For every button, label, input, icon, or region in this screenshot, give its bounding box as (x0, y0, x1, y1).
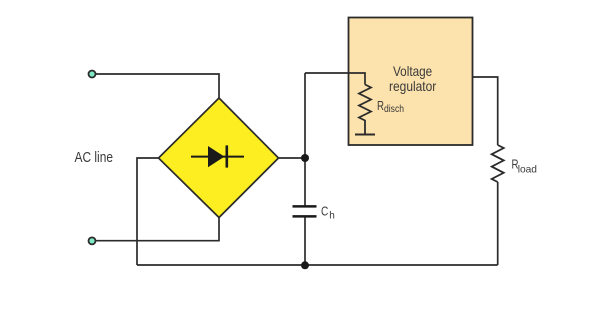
svg-text:h: h (329, 210, 335, 221)
resistor R_load (492, 145, 504, 182)
svg-text:Voltage: Voltage (393, 63, 432, 79)
terminal bottom AC input (89, 237, 96, 244)
junction dot node A (301, 154, 309, 162)
label R_disch (377, 98, 404, 115)
wire bridge right tip to node A (279, 157, 306, 159)
svg-text:C: C (321, 204, 328, 218)
wire top rail to R_disch (305, 73, 365, 85)
capacitor C_h plates (293, 206, 317, 216)
wire R_load to bottom rail (497, 182, 499, 265)
bridge rectifier D1 diamond (159, 98, 279, 218)
label C_h (321, 204, 335, 221)
wire top terminal to bridge top (96, 74, 220, 98)
svg-text:AC line: AC line (75, 149, 114, 166)
wire bottom terminal to bridge bottom (96, 217, 220, 241)
R_disch ground bar (355, 134, 375, 136)
resistor R_disch (359, 85, 371, 135)
svg-text:regulator: regulator (389, 78, 437, 94)
wire node A to capacitor (304, 158, 306, 206)
wire regulator output to R_load (473, 77, 498, 145)
label Voltage regulator (389, 63, 437, 94)
svg-text:R: R (377, 98, 384, 113)
svg-text:disch: disch (384, 103, 404, 115)
wire bridge left tip down to bottom rail (137, 158, 159, 265)
wire capacitor to bottom rail (304, 217, 306, 265)
diode symbol inside bridge (191, 145, 244, 167)
terminal top AC input (89, 71, 96, 78)
svg-text:load: load (518, 163, 537, 175)
bottom rail wire (137, 264, 498, 266)
label R_load (512, 156, 538, 175)
voltage regulator box U1 (349, 18, 473, 146)
wire node A vertical riser to top (304, 73, 306, 158)
junction dot bottom rail (301, 261, 309, 269)
